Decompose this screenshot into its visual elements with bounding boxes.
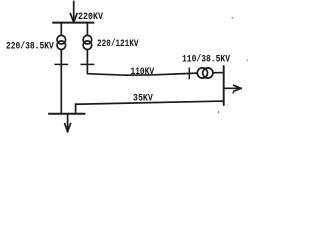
svg-text:110/38.5KV: 110/38.5KV — [182, 54, 230, 66]
svg-text:220/121KV: 220/121KV — [97, 38, 139, 50]
wire: jog down from 35KV line to bottom bus — [75, 104, 77, 114]
wire: T1 secondary down to 35KV bus — [60, 49, 62, 114]
wire: drop to transformer T2 — [86, 23, 88, 36]
svg-text:35KV: 35KV — [133, 93, 153, 104]
scan speckles — [218, 17, 248, 114]
bus: 220KV bus — [53, 22, 93, 24]
bus: right 35KV side vertical bus — [223, 66, 225, 105]
bus: bottom 35KV bus — [49, 113, 84, 115]
tick on T1 secondary lead — [55, 63, 67, 65]
wire: T2 secondary down then right = 110KV feeder — [87, 49, 223, 75]
transformer T1 220/38.5KV (two vertical circles) — [57, 35, 66, 49]
wire: drop to transformer T1 — [60, 23, 62, 36]
tick on 110KV line — [188, 68, 190, 78]
wire: 35KV tie line (slightly skewed scan) — [76, 101, 224, 104]
tick on T2 secondary lead — [81, 63, 93, 65]
transformer T2 220/121KV (two vertical circles) — [83, 35, 92, 49]
svg-text:220/38.5KV: 220/38.5KV — [6, 41, 54, 53]
svg-text:220KV: 220KV — [78, 12, 103, 23]
wire: 220KV incoming feeder with down arrow — [70, 2, 77, 23]
transformer T3 110/38.5KV (two horizontal circles) — [197, 68, 213, 78]
svg-text:110KV: 110KV — [131, 67, 155, 78]
wire: load feeder arrow to the right — [224, 85, 241, 91]
wire: load feeder arrow downward from 35KV bus — [65, 114, 71, 132]
